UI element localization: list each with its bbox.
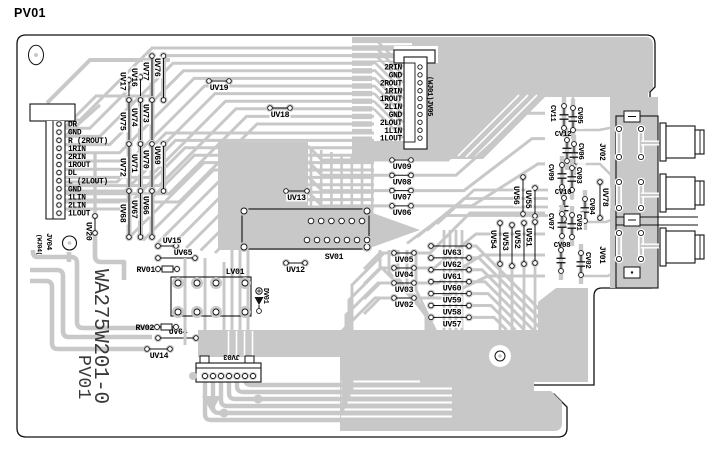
jumper UV06	[388, 202, 415, 218]
jumper UV66	[140, 187, 156, 241]
svg-text:CV01: CV01	[574, 214, 582, 231]
svg-text:UV02: UV02	[395, 301, 414, 310]
svg-text:CV06: CV06	[576, 143, 584, 160]
wire bundle UV57-UV63 to bottom pour	[469, 246, 560, 330]
svg-text:UV74: UV74	[129, 108, 138, 127]
jumper UV03	[390, 279, 418, 295]
svg-text:SV01: SV01	[325, 253, 344, 262]
wire bundle SV01 to bottom	[380, 250, 438, 336]
svg-text:UV76: UV76	[152, 58, 161, 77]
svg-text:CV08: CV08	[554, 242, 571, 250]
copper pour right mid strip + jack block fill	[610, 97, 658, 288]
jumper UV63	[427, 242, 473, 258]
jumper UV19	[205, 77, 233, 93]
relay LV01	[171, 258, 251, 352]
wire bundle center	[64, 133, 374, 253]
connector JV04 (WJ04)	[30, 104, 108, 219]
wire SV01 to JV03 verticals	[232, 250, 248, 356]
jumper UV20	[84, 212, 99, 240]
svg-text:RV01: RV01	[137, 266, 156, 275]
svg-text:CV03: CV03	[574, 167, 582, 184]
wire caps top stubs	[562, 96, 574, 200]
capacitor CV02	[577, 244, 594, 284]
jumper UV15	[154, 237, 183, 251]
jumper UV07	[388, 187, 415, 203]
capacitor CV09	[546, 156, 567, 196]
copper pour top	[352, 37, 653, 159]
jumper UV60	[427, 278, 473, 294]
svg-text:CV05: CV05	[575, 107, 583, 124]
svg-text:UV63: UV63	[443, 249, 462, 258]
jumper UV08	[388, 171, 415, 187]
capacitor CV05	[569, 99, 586, 139]
svg-text:(WJ04(: (WJ04(	[36, 234, 43, 255]
jumper UV12	[282, 259, 309, 275]
resistor RV01	[137, 265, 181, 275]
svg-text:UV08: UV08	[393, 178, 412, 187]
svg-text:UV06: UV06	[393, 209, 412, 218]
svg-text:UV53: UV53	[500, 232, 509, 251]
svg-text:UV12: UV12	[286, 266, 305, 275]
screw hole bottom-right	[489, 345, 511, 367]
jumper UV55	[523, 184, 539, 220]
svg-text:UV75: UV75	[117, 112, 126, 131]
wire top-left diagonals	[47, 60, 170, 137]
jumper UV52	[512, 219, 528, 268]
jumper UV73	[140, 96, 156, 148]
jumper UV59	[427, 290, 473, 306]
mounting hole top-left	[29, 45, 44, 64]
svg-text:RV02: RV02	[136, 324, 155, 333]
jumper UV56	[511, 173, 527, 218]
jumper UV58	[427, 302, 473, 318]
svg-text:CV02: CV02	[583, 252, 591, 269]
jack block JV02/JV78/JV01	[615, 111, 698, 288]
wire SV01 vertical fanout top	[280, 148, 372, 221]
svg-text:UV03: UV03	[395, 286, 414, 295]
jumper UV65	[154, 249, 199, 263]
svg-text:DV01: DV01	[261, 288, 269, 304]
svg-text:UV19: UV19	[210, 84, 229, 93]
svg-text:UV69: UV69	[152, 146, 161, 165]
svg-text:UV07: UV07	[393, 194, 412, 203]
board outline	[17, 35, 656, 437]
connector JV05 (WJ01)	[380, 50, 435, 149]
jumper UV17	[117, 71, 133, 105]
svg-text:UV17: UV17	[117, 72, 126, 91]
wire bundle UV02-05 to bottom left	[340, 253, 394, 410]
jumper UV74	[129, 96, 145, 148]
resistor RV02	[136, 323, 180, 333]
capacitor CV01	[568, 206, 585, 246]
svg-text:UV58: UV58	[443, 309, 462, 318]
wire jumper-grid verticals	[129, 56, 164, 237]
svg-text:JV03: JV03	[223, 352, 240, 360]
svg-text:UV77: UV77	[140, 62, 149, 81]
svg-text:UV51: UV51	[524, 228, 533, 247]
jumper UV05	[390, 249, 418, 265]
jumper UV04	[390, 264, 418, 280]
svg-text:UV60: UV60	[443, 285, 462, 294]
diode DV01	[255, 288, 270, 314]
jumper UV69	[152, 140, 168, 195]
svg-text:UV14: UV14	[150, 352, 169, 361]
svg-text:UV18: UV18	[271, 111, 290, 120]
jumper UV78	[596, 178, 611, 222]
jumper UV09	[388, 156, 415, 172]
jumper UV72	[117, 140, 133, 195]
svg-text:UV09: UV09	[393, 163, 412, 172]
jumper UV64	[154, 328, 200, 343]
wire JV03 fanout	[205, 343, 342, 421]
svg-text:UV59: UV59	[443, 297, 462, 306]
jumper UV62	[427, 254, 473, 270]
capacitor CV07	[546, 205, 567, 245]
svg-text:PV01: PV01	[14, 6, 46, 20]
wire UV09-06 left stubs	[308, 146, 394, 314]
RCA jack 2	[660, 174, 704, 212]
jumper UV51	[524, 218, 540, 267]
svg-text:LV01: LV01	[226, 268, 245, 277]
svg-text:UV65: UV65	[174, 249, 193, 258]
copper pour band above JV03	[198, 330, 340, 357]
svg-text:JV02: JV02	[597, 143, 605, 161]
svg-text:1LOUT: 1LOUT	[68, 210, 91, 219]
svg-text:UV52: UV52	[512, 230, 521, 249]
capacitor CV08	[554, 241, 571, 280]
connector SV01	[239, 206, 372, 262]
jumper UV54	[488, 219, 504, 268]
svg-text:PV01: PV01	[73, 355, 93, 400]
jumper UV77	[140, 52, 156, 104]
svg-text:UV68: UV68	[117, 204, 126, 223]
svg-text:UV54: UV54	[488, 230, 497, 249]
RCA jack 1	[660, 123, 704, 161]
wire bundle top	[64, 48, 374, 202]
jumper UV75	[117, 96, 133, 148]
wire horizontals caps to wedge	[407, 190, 548, 331]
svg-text:UV16: UV16	[129, 68, 138, 87]
jumper UV61	[427, 266, 473, 282]
jumper UV18	[266, 104, 294, 120]
svg-text:JV01: JV01	[597, 246, 605, 264]
jumper UV71	[129, 140, 145, 195]
svg-text:UV71: UV71	[129, 154, 138, 173]
svg-text:JV04: JV04	[44, 233, 52, 251]
capacitor CV10	[555, 189, 572, 228]
wire bundle center-right to pour	[411, 88, 545, 206]
connector JV03	[189, 356, 261, 382]
svg-text:1LOUT: 1LOUT	[380, 135, 403, 144]
wire thick bottom-left elbows	[30, 152, 160, 349]
svg-text:UV73: UV73	[140, 104, 149, 123]
jumper UV67	[129, 187, 145, 241]
wire verticals behind UV57-63	[444, 230, 462, 331]
svg-text:UV13: UV13	[287, 194, 306, 203]
capacitor CV11	[548, 97, 569, 137]
svg-text:UV70: UV70	[140, 150, 149, 169]
jumper UV76	[152, 52, 168, 104]
copper pour bottom	[340, 288, 588, 431]
jumper UV16	[129, 67, 145, 105]
svg-text:UV62: UV62	[443, 261, 462, 270]
capacitor CV06	[570, 135, 587, 175]
wire caps to jacks	[573, 127, 641, 276]
wire bundle UV02-UV05 right	[414, 213, 545, 298]
svg-text:UV57: UV57	[443, 320, 462, 329]
svg-text:UV15: UV15	[163, 237, 182, 246]
capacitor CV12	[555, 131, 572, 170]
jumper UV57	[427, 313, 473, 329]
svg-text:UV56: UV56	[511, 186, 520, 205]
svg-text:CV09: CV09	[546, 164, 554, 181]
svg-text:CV04: CV04	[587, 198, 595, 215]
svg-text:UV20: UV20	[84, 222, 93, 241]
svg-text:UV05: UV05	[395, 256, 414, 265]
copper pour center (around SV01)	[218, 142, 420, 250]
triangle marker	[202, 396, 221, 412]
svg-text:UV66: UV66	[140, 196, 149, 215]
RCA jack 3	[660, 228, 704, 266]
svg-text:CV12: CV12	[555, 131, 572, 139]
capacitor CV04	[581, 190, 598, 230]
svg-text:UV55: UV55	[523, 190, 532, 209]
svg-text:UV78: UV78	[600, 188, 609, 207]
jumper UV68	[117, 187, 133, 241]
svg-text:UV72: UV72	[117, 158, 126, 177]
test point bottom-left	[63, 236, 77, 250]
svg-text:CV07: CV07	[546, 213, 554, 230]
wire jack block diagonals	[615, 126, 652, 268]
jumper UV14	[143, 345, 174, 361]
svg-text:CV11: CV11	[548, 105, 556, 122]
jumper UV70	[140, 140, 156, 195]
capacitor CV03	[568, 159, 585, 199]
jumper UV53	[500, 221, 516, 270]
svg-text:CV10: CV10	[555, 189, 572, 197]
jumper UV02	[390, 294, 418, 310]
jumper UV13	[282, 187, 311, 203]
svg-text:UV61: UV61	[443, 273, 462, 282]
svg-text:UV67: UV67	[129, 200, 138, 219]
svg-text:(WJ01)JV05: (WJ01)JV05	[425, 76, 433, 116]
svg-text:UV04: UV04	[395, 271, 414, 280]
